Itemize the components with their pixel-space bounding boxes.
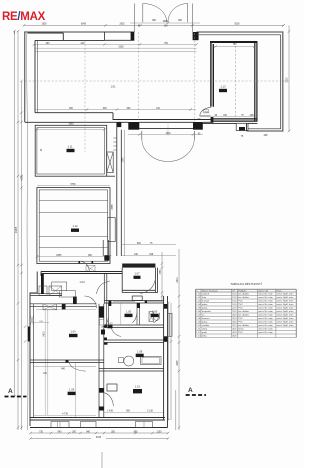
tick right y31.5 bbox=[282, 24, 290, 33]
svg-text:umíst. Nv. trám: umíst. Nv. trám bbox=[258, 317, 273, 320]
svg-text:1.06: 1.06 bbox=[196, 311, 201, 313]
svg-text:75: 75 bbox=[241, 136, 244, 138]
tick chain y360 bbox=[17, 359, 20, 361]
window glazing 1.06 bbox=[148, 301, 162, 303]
svg-text:chodba: chodba bbox=[202, 325, 210, 327]
room 1.05 left wall bbox=[107, 303, 109, 325]
top door left arc bbox=[143, 4, 167, 23]
1.05 door arc bbox=[132, 313, 137, 323]
svg-text:1800: 1800 bbox=[165, 133, 171, 135]
spine wall bbox=[99, 304, 104, 418]
garage door jamb bbox=[79, 261, 81, 263]
svg-text:umíst. Nv. trám: umíst. Nv. trám bbox=[258, 324, 273, 327]
divider 1.05/1.06 bbox=[137, 303, 140, 325]
dim vertical 1.09 x75.5 bbox=[75, 363, 77, 418]
area box 1.13 bbox=[219, 89, 227, 92]
ladder rungs bbox=[113, 138, 117, 150]
hall bottom wall bbox=[30, 293, 62, 295]
1.06 door arc bbox=[154, 313, 160, 323]
door 1.01 to 1.13 leaf bbox=[200, 115, 211, 117]
svg-text:Název místnosti: Název místnosti bbox=[202, 289, 218, 292]
svg-text:umíst. Nv. trám: umíst. Nv. trám bbox=[258, 310, 273, 313]
svg-text:umíst. Npříl. trám: umíst. Npříl. trám bbox=[277, 324, 294, 327]
svg-text:4 730: 4 730 bbox=[62, 414, 68, 416]
svg-text:PVC: PVC bbox=[238, 332, 243, 334]
tick chain y273 bbox=[20, 272, 23, 274]
svg-text:TABULKA MÍSTNOSTÍ: TABULKA MÍSTNOSTÍ bbox=[230, 282, 262, 286]
garage pier east bbox=[108, 218, 116, 242]
room 1.13 bottom wall bbox=[211, 119, 258, 121]
area box 1.11 bbox=[67, 149, 75, 152]
wall stub below pier vertical bbox=[246, 123, 248, 131]
garage plank line 2 bbox=[39, 212, 108, 214]
wall joint x63.3 bbox=[62, 33, 64, 40]
1.06 fixture circle bbox=[154, 314, 160, 320]
svg-text:umíst. Npříl. trám: umíst. Npříl. trám bbox=[277, 307, 294, 310]
svg-text:9015: 9015 bbox=[96, 437, 102, 439]
svg-text:90: 90 bbox=[215, 115, 218, 117]
tick right y131 bbox=[288, 130, 291, 132]
svg-text:900: 900 bbox=[178, 20, 183, 22]
top wall dark overlay bbox=[28, 32, 64, 34]
hall furniture box 1 bbox=[39, 286, 47, 295]
svg-text:zádveří: zádveří bbox=[202, 294, 210, 296]
svg-text:100: 100 bbox=[43, 373, 48, 375]
dim row y44.4 bbox=[35, 43, 197, 45]
svg-text:umíst. Nv. trám: umíst. Nv. trám bbox=[258, 293, 273, 296]
top door left jamb line bbox=[133, 4, 135, 33]
window bottom 1 mullions bbox=[58, 422, 61, 428]
dashed axis x85 bbox=[84, 41, 86, 153]
hall 1.03 top wall bbox=[41, 272, 122, 274]
rooms 1.05/1.06 top wall bbox=[104, 301, 164, 304]
garden door right leaf bbox=[193, 131, 195, 140]
svg-text:940: 940 bbox=[61, 368, 66, 370]
top door right jamb line bbox=[192, 4, 194, 33]
svg-text:2930: 2930 bbox=[119, 23, 125, 25]
area box 1.12 bbox=[71, 229, 79, 232]
room 1.01 bottom wall bbox=[35, 112, 113, 114]
svg-text:umíst. Npříl. trám: umíst. Npříl. trám bbox=[277, 300, 294, 303]
east window bay inner bbox=[169, 313, 171, 336]
svg-text:půda: půda bbox=[202, 331, 208, 334]
room 1.13 left wall stub bbox=[211, 117, 214, 123]
inner bottom line right corner bbox=[248, 128, 281, 130]
svg-text:1.01: 1.01 bbox=[196, 294, 201, 296]
svg-text:4225: 4225 bbox=[177, 360, 179, 366]
svg-text:34,5: 34,5 bbox=[232, 322, 237, 324]
svg-text:dílna: dílna bbox=[202, 336, 208, 338]
svg-text:1.10: 1.10 bbox=[196, 325, 201, 327]
room 1.13 left wall upper bbox=[211, 41, 213, 107]
corridor wall west bbox=[116, 122, 118, 256]
svg-text:A: A bbox=[188, 387, 193, 394]
right dim line bbox=[288, 25, 290, 131]
dim verticals 1.04 1.09 bbox=[44, 310, 46, 415]
east window bay bbox=[168, 313, 173, 336]
svg-text:3960: 3960 bbox=[68, 124, 74, 126]
svg-text:Podlaha: Podlaha bbox=[238, 290, 247, 292]
svg-text:PVC: PVC bbox=[238, 301, 243, 303]
area box 1.04 bbox=[69, 334, 78, 337]
room 1.01 left wall bbox=[34, 40, 36, 112]
garage dim row bbox=[37, 256, 110, 258]
wing west inner wall bbox=[33, 304, 35, 418]
pier 1.09 top wall bbox=[66, 360, 69, 363]
divider pier black bbox=[137, 303, 140, 308]
wing east inner wall bbox=[163, 296, 165, 420]
garage plank line 1 bbox=[39, 200, 108, 202]
wall step at x113 bbox=[113, 113, 211, 120]
top wall inner line right section bbox=[199, 34, 281, 36]
svg-text:1.07: 1.07 bbox=[196, 315, 201, 317]
svg-text:2410: 2410 bbox=[43, 331, 45, 337]
1.06 fixtures box cross bbox=[149, 312, 154, 322]
tick chain y176 bbox=[17, 175, 23, 177]
spine black segment 3 bbox=[99, 388, 104, 393]
svg-text:Pozn: Pozn bbox=[277, 290, 283, 292]
room 1.11 walls outer bbox=[35, 125, 107, 176]
bottom dim line total bbox=[31, 438, 92, 440]
svg-text:1.10: 1.10 bbox=[135, 385, 141, 389]
bath tub inner bbox=[142, 358, 160, 364]
hall furniture box 3 bbox=[52, 282, 67, 291]
left dim chain 1 bbox=[14, 31, 16, 397]
svg-text:1.09: 1.09 bbox=[69, 388, 75, 392]
svg-text:298: 298 bbox=[250, 115, 255, 117]
dim row 1.04 y322.5 bbox=[34, 322, 49, 324]
svg-text:ker. dlažba: ker. dlažba bbox=[238, 296, 249, 299]
room 1.04 top wall bbox=[30, 304, 97, 307]
garden door piers wall lines bbox=[139, 121, 193, 123]
svg-text:700: 700 bbox=[223, 115, 228, 117]
bottom dim ticks bbox=[29, 432, 169, 440]
svg-text:1.12: 1.12 bbox=[196, 332, 201, 334]
east wall black segment 1 bbox=[164, 304, 168, 309]
svg-text:1.07: 1.07 bbox=[134, 272, 140, 276]
area box 1.07 bbox=[134, 276, 141, 279]
svg-text:ker. dlažba: ker. dlažba bbox=[238, 310, 249, 313]
window bottom 3 mullion bbox=[143, 422, 145, 428]
svg-text:5750: 5750 bbox=[70, 184, 76, 186]
svg-text:umíst. Nv. trám: umíst. Nv. trám bbox=[258, 300, 273, 303]
svg-text:20: 20 bbox=[41, 148, 43, 151]
chain x162 bbox=[161, 252, 163, 303]
svg-text:31,5: 31,5 bbox=[232, 318, 237, 320]
svg-text:40,5: 40,5 bbox=[232, 329, 237, 331]
east wall black segment 2 bbox=[164, 336, 168, 342]
svg-text:3300: 3300 bbox=[287, 77, 289, 83]
dim row 1.13 y46.5 bbox=[213, 46, 255, 48]
black pier right of top door bbox=[193, 32, 199, 40]
outer wall bottom right of top band bbox=[247, 130, 284, 132]
pier dark box bbox=[239, 127, 245, 131]
svg-text:A: A bbox=[8, 388, 13, 395]
svg-text:22,5: 22,5 bbox=[232, 308, 237, 310]
svg-text:13,5: 13,5 bbox=[232, 297, 237, 299]
black pier corridor top bbox=[117, 122, 122, 127]
bathroom bottom wall bbox=[99, 369, 164, 372]
section A left line bbox=[5, 396, 27, 398]
right chain ticks bbox=[282, 24, 290, 132]
1.06 top jamb black bbox=[145, 301, 148, 304]
area box 1.10 bbox=[133, 389, 142, 393]
tick chain y81 bbox=[20, 80, 23, 82]
svg-text:umíst. Nv. trám: umíst. Nv. trám bbox=[258, 296, 273, 299]
svg-text:298: 298 bbox=[264, 135, 269, 137]
room 1.11 bottom wall extension bbox=[107, 175, 115, 177]
svg-text:umíst. Npříl. trám: umíst. Npříl. trám bbox=[277, 321, 294, 324]
tick chain y265 bbox=[17, 264, 23, 266]
room 1.07 walls bbox=[122, 268, 157, 293]
garage door jamb 2 bbox=[92, 261, 94, 263]
1.06 fixtures box bbox=[149, 312, 154, 322]
room 1.13 top wall bbox=[210, 41, 257, 43]
south wall outer line full bbox=[25, 121, 129, 123]
hatched wall band bbox=[122, 264, 155, 268]
window in 1.04 left wall bbox=[30, 316, 33, 326]
tick chain y327 bbox=[24, 325, 27, 342]
svg-text:umíst. Nv. trám: umíst. Nv. trám bbox=[258, 321, 273, 324]
stair shaft bbox=[107, 152, 114, 173]
breezeway box cross bbox=[86, 266, 95, 272]
faint fold mark bottom bbox=[101, 452, 103, 468]
svg-text:2410: 2410 bbox=[177, 277, 179, 283]
svg-text:1.03: 1.03 bbox=[79, 280, 85, 284]
dashed axis x168 door centre bbox=[167, 122, 169, 137]
dashed axis x138.5 bbox=[138, 32, 140, 120]
chain x168 bbox=[167, 303, 169, 420]
right outer wall inner line bbox=[280, 35, 282, 129]
dim row 1.11 y129.5 bbox=[37, 129, 105, 131]
svg-text:umíst. Npříl. trám: umíst. Npříl. trám bbox=[277, 314, 294, 317]
arrow top chain2 bbox=[17, 30, 20, 32]
svg-text:5000: 5000 bbox=[234, 23, 240, 25]
garden door black pier right bbox=[193, 122, 203, 130]
window glazing 1.05 bbox=[113, 301, 135, 303]
outer wall top right bbox=[197, 32, 283, 131]
chain x179 ticks bbox=[167, 295, 180, 429]
svg-text:wc: wc bbox=[202, 315, 206, 317]
tick chain y427 bbox=[17, 426, 23, 428]
tick chain y303 bbox=[17, 302, 20, 304]
tick chain y187.6 bbox=[20, 186, 23, 188]
svg-text:1.03: 1.03 bbox=[196, 301, 201, 303]
svg-text:900: 900 bbox=[152, 20, 157, 22]
svg-text:1.13: 1.13 bbox=[220, 85, 226, 89]
top dim line bbox=[24, 24, 284, 26]
garage plank line 4 bbox=[39, 246, 108, 248]
room 1.01 inner left line bbox=[37, 41, 39, 113]
svg-text:750: 750 bbox=[233, 44, 238, 46]
section A right line bbox=[186, 394, 206, 396]
svg-text:28,5: 28,5 bbox=[232, 315, 237, 317]
hall black wall segment bbox=[41, 274, 44, 294]
garden door right arc bbox=[168, 139, 194, 162]
svg-text:kuchyň: kuchyň bbox=[202, 301, 210, 303]
svg-text:PVC: PVC bbox=[238, 308, 243, 310]
hall door arc east bbox=[85, 296, 97, 308]
svg-text:pokoj: pokoj bbox=[202, 322, 208, 324]
room 1.13 right wall bbox=[255, 42, 257, 122]
svg-text:16,5: 16,5 bbox=[232, 301, 237, 303]
wing bottom inner walls bbox=[30, 418, 165, 421]
svg-text:1.06: 1.06 bbox=[152, 310, 158, 314]
svg-text:umíst. Nv. trám: umíst. Nv. trám bbox=[258, 303, 273, 306]
svg-text:8045: 8045 bbox=[81, 23, 87, 25]
door arc closet bbox=[101, 318, 108, 328]
room 1.07 door arc bbox=[140, 279, 155, 294]
svg-text:PVC: PVC bbox=[238, 304, 243, 306]
svg-text:umíst. Nv. trám: umíst. Nv. trám bbox=[258, 331, 273, 334]
garage plank line 3 bbox=[39, 235, 108, 237]
svg-text:umíst. Npříl. trám: umíst. Npříl. trám bbox=[277, 296, 294, 299]
tick chain y112.7 bbox=[20, 112, 23, 114]
svg-text:2585: 2585 bbox=[112, 204, 114, 210]
svg-text:ker. dlažba: ker. dlažba bbox=[238, 324, 249, 327]
corridor jamb black 2 bbox=[104, 338, 107, 341]
dim row y48.2 bbox=[35, 47, 197, 49]
svg-text:ker. dlažba: ker. dlažba bbox=[238, 293, 249, 296]
south wall of 1.13 outer bbox=[197, 122, 237, 124]
svg-text:75: 75 bbox=[241, 115, 244, 117]
door label box 900 bbox=[204, 110, 209, 113]
top door right leaf bbox=[187, 4, 189, 23]
hall furniture box 4 bbox=[59, 291, 75, 297]
svg-text:46,5: 46,5 bbox=[232, 336, 237, 338]
hall east wall bbox=[104, 274, 107, 304]
svg-text:1930: 1930 bbox=[41, 23, 47, 25]
tick chain y122 bbox=[17, 121, 23, 123]
svg-text:pokoj: pokoj bbox=[202, 304, 208, 306]
svg-text:sklep: sklep bbox=[202, 329, 208, 331]
1.04 window box bbox=[43, 304, 57, 310]
svg-text:umíst. Npříl. trám: umíst. Npříl. trám bbox=[277, 303, 294, 306]
svg-text:1.12: 1.12 bbox=[72, 224, 78, 228]
dim row y109.5 bbox=[35, 109, 196, 111]
svg-text:2 130: 2 130 bbox=[147, 411, 153, 413]
svg-text:1.05: 1.05 bbox=[196, 308, 201, 310]
svg-text:10,5: 10,5 bbox=[232, 294, 237, 296]
bath small box bbox=[119, 358, 124, 363]
top door right arc bbox=[168, 4, 188, 23]
svg-text:PVC: PVC bbox=[238, 322, 243, 324]
spine window cross box bbox=[100, 320, 104, 326]
svg-text:umíst. Npříl. trám: umíst. Npříl. trám bbox=[277, 310, 294, 313]
garage walls outer bbox=[37, 188, 110, 264]
1.10 door arc bbox=[104, 393, 114, 406]
hall west wall white part bbox=[36, 272, 38, 294]
garden door black pier left bbox=[128, 122, 139, 130]
area box 1.02 bbox=[108, 325, 113, 328]
hall big door arc bbox=[97, 281, 111, 294]
bath tub rect bbox=[141, 357, 161, 365]
area box 1.08 bbox=[136, 354, 144, 357]
dim row y51.6 bbox=[35, 51, 197, 53]
svg-text:1.11: 1.11 bbox=[196, 329, 201, 331]
pier on 1.04 top wall bbox=[62, 304, 66, 310]
area box 1.09 bbox=[68, 392, 76, 395]
hall furniture cross bbox=[49, 286, 62, 295]
svg-text:1.04: 1.04 bbox=[70, 330, 76, 334]
RE/MAX logo bbox=[2, 11, 45, 23]
svg-text:1.11: 1.11 bbox=[68, 145, 73, 149]
svg-text:5180: 5180 bbox=[118, 47, 124, 49]
top dim ticks bbox=[23, 22, 285, 258]
svg-text:1580: 1580 bbox=[160, 269, 162, 275]
dim row y255.5 bbox=[122, 255, 176, 257]
svg-text:23265: 23265 bbox=[16, 226, 18, 233]
window bottom 2 bbox=[81, 422, 97, 428]
hall west wall step bbox=[30, 293, 37, 426]
1.10 wardrobe box bbox=[107, 384, 117, 391]
left dim chain 3 bbox=[21, 81, 23, 430]
svg-text:180: 180 bbox=[164, 25, 169, 27]
bath circle bbox=[124, 356, 134, 366]
dashed axis horizontal bbox=[25, 80, 289, 82]
svg-text:hala: hala bbox=[202, 297, 207, 299]
garden door left leaf bbox=[141, 131, 143, 140]
dim row garden door y134.5 bbox=[128, 134, 203, 136]
door 1.01 to 1.13 arc bbox=[200, 107, 211, 116]
dim row 1.13 bottom y116.5 bbox=[213, 116, 255, 118]
left pier protrusion bbox=[28, 327, 30, 342]
svg-text:1 436: 1 436 bbox=[107, 411, 113, 413]
svg-text:komora: komora bbox=[202, 317, 210, 320]
corridor 1.02 top wall bbox=[104, 325, 164, 328]
svg-text:1100: 1100 bbox=[157, 431, 163, 433]
dim vertical in 1.05 bbox=[120, 303, 122, 325]
svg-text:1.02: 1.02 bbox=[107, 322, 113, 326]
window bottom 3 bbox=[136, 422, 153, 428]
spine black segment 1 bbox=[99, 306, 104, 317]
area box 1.06 bbox=[151, 314, 159, 317]
garage door arc bbox=[79, 261, 89, 271]
svg-text:umíst. Nv. trám: umíst. Nv. trám bbox=[258, 328, 273, 331]
dashed axis x194.8 bbox=[194, 33, 196, 122]
top bump between doors bbox=[132, 296, 142, 301]
garage top dim row bbox=[37, 184, 110, 186]
svg-text:1.13: 1.13 bbox=[196, 336, 201, 338]
room 1.01 inner top wall bbox=[35, 39, 105, 41]
svg-text:1.05: 1.05 bbox=[126, 310, 132, 314]
dim row 1.09 y415.5 bbox=[34, 415, 96, 417]
svg-text:1.08: 1.08 bbox=[137, 350, 143, 354]
outer wall top left bbox=[25, 32, 135, 122]
area box 1.05 bbox=[125, 314, 133, 317]
svg-text:beton: beton bbox=[238, 328, 244, 331]
pier above door bottom line bbox=[105, 32, 135, 40]
tick chain y397 bbox=[13, 395, 16, 397]
svg-text:umíst. výš: umíst. výš bbox=[258, 289, 269, 292]
room 1.09 top wall bbox=[30, 360, 104, 363]
svg-text:1.01: 1.01 bbox=[110, 85, 116, 89]
chain x162 ticks bbox=[161, 262, 164, 297]
rotated dim texts bbox=[16, 44, 289, 365]
chain x176 lower bbox=[175, 390, 177, 430]
left boundary wavy line bbox=[27, 33, 28, 430]
dim row 1.04 y309.7 bbox=[36, 309, 96, 311]
svg-text:43,5: 43,5 bbox=[232, 332, 237, 334]
garage walls inner bbox=[39, 190, 108, 261]
wing east outer wall bbox=[167, 296, 169, 428]
svg-text:umíst. Nv. trám: umíst. Nv. trám bbox=[258, 314, 273, 317]
svg-text:umíst. Npříl. trám: umíst. Npříl. trám bbox=[277, 293, 294, 296]
corridor end walls bbox=[103, 240, 108, 256]
room 1.11 walls inner bbox=[37, 128, 105, 174]
bottom dim line detail bbox=[31, 432, 169, 434]
pier below 1.13 bbox=[236, 123, 248, 130]
